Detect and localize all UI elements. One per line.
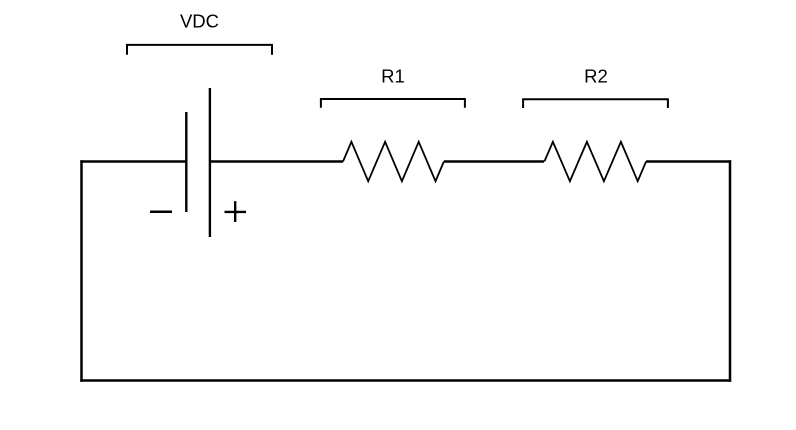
wire: R2 to top-right corner <box>646 160 731 163</box>
battery minus sign <box>150 210 172 213</box>
wire: top-left segment to battery negative plate <box>80 160 186 163</box>
wire: bottom side of loop <box>80 379 731 382</box>
battery plus sign <box>225 201 247 222</box>
resistor R2 zigzag <box>544 142 646 181</box>
svg-text:VDC: VDC <box>180 11 219 32</box>
wire: left vertical side of loop <box>80 160 83 381</box>
R1 label bracket <box>321 99 465 108</box>
VDC label bracket <box>127 45 272 55</box>
svg-text:R1: R1 <box>381 65 405 86</box>
battery VDC: negative (short) plate <box>185 112 187 212</box>
svg-text:R2: R2 <box>584 65 608 86</box>
wire: battery positive plate to R1 <box>210 160 343 163</box>
battery VDC: positive (tall) plate <box>209 88 211 237</box>
R2 label bracket <box>523 99 668 108</box>
resistor R1 zigzag <box>343 142 444 181</box>
wire: right vertical side of loop <box>729 160 732 381</box>
wire: between R1 and R2 <box>444 160 544 163</box>
